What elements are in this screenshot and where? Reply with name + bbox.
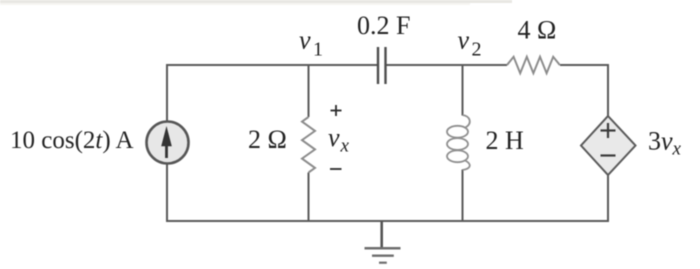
wire top-left horizontal (left rail to capacitor left plate) <box>167 64 378 66</box>
wire node v1 rail upper <box>308 65 310 117</box>
svg-text:0.2 F: 0.2 F <box>357 11 410 40</box>
svg-text:v: v <box>328 123 340 152</box>
svg-text:1: 1 <box>313 39 323 61</box>
svg-text:x: x <box>672 139 682 160</box>
wire right rail upper <box>607 64 609 116</box>
resistor R2 4-ohm (horizontal zigzag) <box>507 57 560 73</box>
wire right rail lower <box>607 175 609 222</box>
wire node v2 rail lower <box>462 170 464 222</box>
wire bottom rail <box>167 220 608 222</box>
dependent source 3vx (diamond) <box>581 116 636 175</box>
wire 4-ohm resistor to top-right corner <box>560 64 608 66</box>
wire node v2 rail upper <box>462 65 464 116</box>
svg-text:4 Ω: 4 Ω <box>518 16 557 45</box>
svg-text:v: v <box>299 26 311 55</box>
wire left rail lower <box>166 164 168 223</box>
resistor R1 2-ohm (vertical zigzag) <box>302 117 315 173</box>
svg-text:x: x <box>340 136 350 157</box>
svg-text:10 cos(2t) A: 10 cos(2t) A <box>10 127 134 154</box>
svg-text:2: 2 <box>472 39 482 61</box>
capacitor C1 0.2F plates <box>378 47 386 84</box>
svg-text:3v: 3v <box>648 127 673 156</box>
wire left rail upper <box>166 64 168 122</box>
current source I1 10cos(2t) A <box>147 122 189 164</box>
ground <box>365 221 401 263</box>
svg-text:v: v <box>458 26 470 55</box>
wire node v1 rail lower <box>308 173 310 222</box>
plus sign of vx <box>331 105 342 116</box>
svg-text:2 Ω: 2 Ω <box>248 125 287 154</box>
inductor L1 2H (coil) <box>447 115 470 170</box>
wire capacitor right plate to 4-ohm resistor <box>386 64 508 66</box>
svg-text:2 H: 2 H <box>486 126 525 155</box>
minus sign of vx <box>330 168 342 170</box>
